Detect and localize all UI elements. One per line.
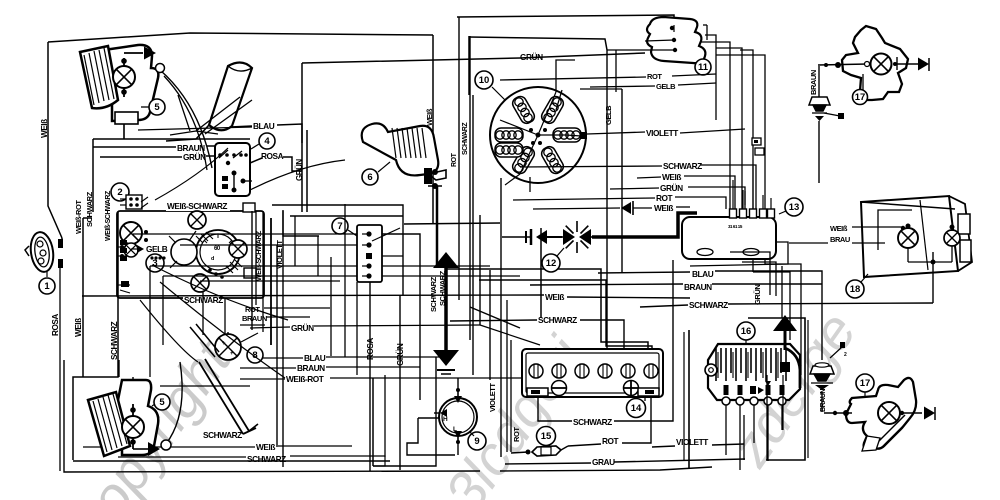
svg-text:d: d bbox=[211, 256, 214, 262]
wire left border bbox=[48, 42, 62, 238]
label VIOLETT vert x492 bbox=[488, 383, 497, 412]
cable sweep d bbox=[250, 160, 345, 190]
rear cluster bracket bbox=[958, 214, 971, 262]
label VIOLETT bottom bbox=[676, 437, 708, 447]
svg-text:BRAU: BRAU bbox=[830, 235, 850, 244]
battery 14 bbox=[522, 349, 663, 397]
label ROT right bbox=[245, 305, 260, 314]
wire vertical x302 bbox=[301, 63, 303, 212]
svg-text:15: 15 bbox=[541, 431, 552, 442]
wire braun stub bbox=[240, 317, 310, 325]
svg-text:GELB: GELB bbox=[146, 244, 168, 254]
turn signal 17 leg bbox=[862, 415, 909, 451]
label WEISS vert b bbox=[74, 318, 83, 337]
wire blau right bbox=[598, 271, 822, 285]
label BRAUN vert 17 bbox=[809, 70, 818, 95]
wire 17 top left bbox=[818, 62, 870, 69]
svg-text:SCHWARZ: SCHWARZ bbox=[85, 191, 94, 227]
wire corner a bbox=[730, 252, 770, 295]
label SCHWARZ pedal bbox=[203, 430, 242, 440]
wire vertical x433 (stop switch feed) bbox=[432, 35, 434, 223]
rear brake switch 8 bbox=[215, 332, 258, 360]
handlebar grip bbox=[166, 62, 252, 141]
label GRUEN vert mid bbox=[395, 343, 405, 366]
wire rot tail bbox=[500, 74, 716, 80]
svg-text:GRÜN: GRÜN bbox=[660, 183, 683, 193]
label GRUEN mid bbox=[291, 323, 314, 333]
wire weiss rear bbox=[852, 226, 905, 230]
label SCHWARZ right2 bbox=[689, 300, 728, 310]
label ROT tail bbox=[647, 72, 662, 81]
ground arrow 17 top bbox=[918, 58, 929, 72]
ground arrow plug left bbox=[502, 229, 547, 245]
decor bbox=[53, 300, 868, 500]
wire x436 down bbox=[373, 357, 436, 466]
label BRAUN bbox=[177, 143, 205, 153]
wire x277 bbox=[276, 245, 278, 447]
wire x730 bbox=[700, 42, 730, 252]
svg-text:WEIß: WEIß bbox=[654, 203, 673, 213]
wire weiss label bbox=[544, 291, 567, 302]
svg-text:SCHWARZ: SCHWARZ bbox=[538, 315, 577, 325]
label circled 8 bbox=[247, 347, 263, 363]
svg-text:SCHWARZ: SCHWARZ bbox=[689, 300, 728, 310]
wire box top bbox=[93, 139, 250, 212]
svg-text:9: 9 bbox=[474, 436, 479, 447]
ground arrow 17 bottom bbox=[924, 407, 935, 421]
pilot lamp top bbox=[188, 211, 206, 229]
label ROSA bbox=[261, 151, 284, 161]
label circled 3 bbox=[146, 254, 164, 272]
svg-text:WEIß-SCHWARZ: WEIß-SCHWARZ bbox=[256, 230, 263, 281]
label SCHWARZ vert a bbox=[85, 191, 94, 227]
switch unit 4 box bbox=[215, 143, 250, 196]
steering column lines bbox=[170, 95, 252, 135]
wire x118 SCHWARZ bbox=[73, 212, 118, 460]
wire schwarz battery bbox=[538, 260, 673, 421]
svg-text:ROT: ROT bbox=[656, 193, 673, 203]
bottom lamp terminals bbox=[130, 404, 136, 449]
wire x307 bbox=[306, 130, 308, 212]
label VIOLETT right bbox=[646, 128, 678, 138]
horn symbol top right bbox=[809, 97, 844, 121]
battery terminal left bbox=[527, 388, 548, 396]
svg-text:WEIß-ROT: WEIß-ROT bbox=[74, 200, 83, 234]
wire x256 down bbox=[255, 211, 257, 305]
svg-text:GRÜN: GRÜN bbox=[183, 152, 206, 162]
switch 2 connector bbox=[120, 195, 142, 209]
label BRAUN right2 bbox=[684, 282, 712, 292]
svg-text:5: 5 bbox=[154, 102, 160, 113]
svg-text:GRÜN: GRÜN bbox=[520, 52, 543, 62]
svg-text:16: 16 bbox=[741, 326, 752, 337]
wire x385 bbox=[384, 375, 386, 457]
wire ROSA bbox=[250, 157, 302, 171]
wire y253 bbox=[382, 255, 403, 257]
wire conn7 left2 bbox=[163, 275, 520, 277]
label BRAUN rear bbox=[830, 235, 850, 244]
lamp rear 2 bbox=[944, 225, 960, 263]
svg-text:SCHWARZ: SCHWARZ bbox=[663, 161, 702, 171]
label circled 16 bbox=[737, 322, 755, 344]
label SCHWARZ vert b bbox=[110, 321, 119, 360]
label WEISS-ROT vert bbox=[74, 200, 83, 234]
wire GRUEN y328 bbox=[250, 325, 480, 328]
wire BRAUN to switch bbox=[93, 146, 215, 147]
connector box lamp5 bbox=[115, 112, 252, 130]
wire x225 down bbox=[224, 298, 226, 334]
label circled 13 bbox=[779, 198, 803, 216]
svg-text:GRÜN: GRÜN bbox=[291, 323, 314, 333]
label GRAU bbox=[592, 457, 615, 467]
cable curve handlebar left bbox=[156, 64, 213, 171]
wire x501 bbox=[500, 178, 502, 457]
svg-text:WEIß-SCHWARZ: WEIß-SCHWARZ bbox=[105, 190, 112, 241]
wire braun 17 bbox=[818, 66, 820, 97]
label GRUEN bbox=[183, 152, 206, 162]
lamp bulb front-left bbox=[113, 66, 135, 88]
wire y62 horizontal (GRUEN run) bbox=[302, 53, 645, 63]
lamp bulb 17 bottom bbox=[878, 402, 900, 424]
wire x400 down GRUEN bbox=[399, 295, 401, 470]
svg-text:WEIß-ROT: WEIß-ROT bbox=[286, 374, 324, 384]
lamp bottom bbox=[191, 274, 209, 292]
svg-text:GELB: GELB bbox=[656, 82, 676, 91]
wire BLAU bbox=[230, 124, 302, 143]
small rect right b bbox=[244, 268, 256, 278]
wire 17 bottom left bbox=[824, 410, 852, 416]
label GRUEN stack bbox=[660, 183, 683, 193]
wire y295 long bbox=[82, 295, 690, 298]
wire braun mid bbox=[240, 367, 420, 368]
label GELB bbox=[131, 244, 168, 254]
label SCHWARZ bottom bbox=[183, 294, 223, 305]
wire x606b bbox=[479, 280, 652, 350]
horn 1 terminals bbox=[58, 239, 63, 268]
switch 4 contacts bbox=[218, 150, 252, 193]
svg-text:SCHWARZ: SCHWARZ bbox=[462, 122, 469, 155]
battery plus cap bbox=[624, 381, 639, 396]
label circled 10 bbox=[475, 71, 505, 100]
wire x603 bbox=[446, 269, 648, 350]
wire y35 right segment bbox=[469, 37, 649, 50]
svg-text:5: 5 bbox=[159, 397, 165, 408]
wire y214 bbox=[283, 210, 403, 276]
wire x511 bbox=[510, 340, 512, 452]
label ROT stack bbox=[656, 193, 673, 203]
battery minus cap bbox=[552, 381, 567, 396]
wire x283 bbox=[282, 211, 284, 467]
flywheel magneto 10 bbox=[490, 87, 586, 192]
svg-text:VIOLETT: VIOLETT bbox=[646, 128, 678, 138]
wire x607 bbox=[606, 50, 608, 350]
regulator wires down bbox=[726, 405, 782, 470]
wire gelb tail bbox=[590, 83, 716, 87]
cable sweep e bbox=[155, 148, 228, 200]
svg-text:ROT: ROT bbox=[512, 427, 521, 442]
CDI pins bbox=[728, 202, 775, 229]
svg-text:SCHWARZ: SCHWARZ bbox=[110, 321, 119, 360]
outer bottom line bbox=[64, 360, 480, 472]
HT lead thick bbox=[541, 213, 697, 237]
svg-text:BRAUN: BRAUN bbox=[820, 389, 827, 412]
label circled 17 top bbox=[853, 90, 868, 105]
svg-text:7: 7 bbox=[337, 221, 342, 232]
wire grau bbox=[505, 459, 745, 464]
wire conn7 right1 bbox=[382, 234, 420, 400]
label circled 17 bottom bbox=[856, 374, 874, 398]
wire x490 bbox=[489, 270, 491, 380]
label BLAU bbox=[253, 121, 275, 131]
svg-text:GRÜN: GRÜN bbox=[395, 343, 405, 366]
svg-text:14: 14 bbox=[631, 403, 642, 414]
label SCHWARZ vert x465 bbox=[462, 122, 469, 155]
svg-text:WEIß: WEIß bbox=[74, 318, 83, 337]
battery terminal right bbox=[638, 388, 659, 396]
svg-text:ROT: ROT bbox=[647, 72, 662, 81]
label ROSA vert bbox=[51, 314, 60, 336]
connector 7 pins bbox=[362, 231, 372, 278]
pilot lamp left small bbox=[124, 243, 138, 257]
label circled 12 bbox=[542, 248, 564, 272]
lamp bulb bottom-left bbox=[122, 416, 144, 438]
label circled 18 bbox=[846, 274, 868, 298]
stop switch 6 lever bbox=[362, 123, 439, 175]
wire GRUEN to switch bbox=[100, 156, 215, 157]
horn 9 terminals bbox=[434, 388, 462, 444]
label GRUEN top bbox=[520, 52, 543, 62]
wire x790 bbox=[753, 272, 790, 340]
wire weissrot mid bbox=[240, 378, 540, 379]
wire y251 bbox=[133, 234, 357, 245]
label circled 7 bbox=[332, 218, 357, 236]
wire corner c bbox=[765, 264, 801, 375]
wire horn1 down bbox=[59, 267, 61, 471]
label GELB vert tail bbox=[604, 105, 613, 125]
cable sweep b bbox=[160, 282, 285, 378]
turn signal 17 bottom body bbox=[846, 378, 916, 449]
lamp right bbox=[229, 240, 247, 258]
main lamp left bbox=[120, 222, 142, 244]
label WEISS bottom bbox=[256, 442, 275, 452]
tail light 11 bbox=[647, 17, 705, 63]
ground symbol center bbox=[433, 252, 459, 374]
label circled 1 bbox=[39, 272, 55, 294]
label circled 9 bbox=[468, 432, 486, 450]
wire y281 bbox=[200, 280, 340, 282]
wire schwarz stack bbox=[520, 165, 756, 209]
wire corner b bbox=[742, 262, 776, 296]
label ROT vert x516 bbox=[512, 427, 521, 442]
label circled 11 bbox=[695, 59, 711, 75]
label BRAUN right bbox=[242, 314, 267, 323]
flywheel radial lines bbox=[500, 92, 566, 174]
wire lamp5 bottom bbox=[121, 88, 127, 139]
label circled 5 bottom bbox=[152, 394, 170, 410]
CDI pin wires bbox=[733, 166, 771, 202]
svg-text:18: 18 bbox=[850, 284, 861, 295]
CDI upper pin boxes bbox=[752, 138, 764, 155]
wire y16 top (tail light feed) bbox=[457, 15, 674, 25]
svg-text:4: 4 bbox=[264, 136, 270, 147]
turn signal 17 top body bbox=[842, 26, 908, 100]
wire x437 thick bbox=[436, 186, 439, 268]
wire y223 bbox=[404, 223, 500, 224]
connector arrow mid bbox=[621, 201, 652, 215]
svg-text:BLAU: BLAU bbox=[692, 269, 714, 279]
wire flywheel out right bbox=[566, 132, 645, 139]
wire x163 bbox=[162, 276, 164, 345]
label ROSA vert mid bbox=[366, 338, 375, 360]
horn 1 bbox=[25, 231, 56, 274]
svg-text:1: 1 bbox=[44, 281, 50, 292]
tail light pins bbox=[645, 25, 677, 52]
svg-text:BRAUN: BRAUN bbox=[297, 363, 325, 373]
svg-text:WEIß: WEIß bbox=[425, 108, 434, 126]
small rect right a bbox=[243, 203, 255, 212]
svg-text:WEIß: WEIß bbox=[256, 442, 275, 452]
svg-text:6: 6 bbox=[367, 172, 372, 183]
label SCHWARZ bottom2 bbox=[247, 454, 286, 464]
label WEISS-SCHWARZ top bbox=[166, 200, 230, 211]
label circled 4 bbox=[251, 133, 275, 149]
wire x541 plug bbox=[540, 228, 542, 318]
lamp rear 1 bbox=[898, 224, 918, 263]
wire schwarz right bbox=[640, 303, 933, 307]
wire x357 down bbox=[356, 282, 358, 375]
cluster pin details bbox=[120, 197, 224, 287]
wire flywheel exit bottom bbox=[505, 174, 520, 185]
wire x507 bbox=[506, 300, 508, 452]
label WEISS vert bbox=[40, 119, 49, 138]
svg-text:BRAUN: BRAUN bbox=[809, 70, 818, 95]
speedometer dial bbox=[196, 230, 240, 274]
label circled 14 bbox=[627, 397, 646, 418]
svg-text:WEIß: WEIß bbox=[830, 224, 848, 233]
label SCHWARZ mid-left bbox=[538, 315, 577, 325]
svg-text:WEIß: WEIß bbox=[40, 119, 49, 138]
label GRUEN vert right bbox=[753, 285, 762, 305]
wire schwarz bottom bbox=[118, 456, 385, 466]
svg-text:17: 17 bbox=[860, 378, 871, 389]
label WEISS stack2 bbox=[654, 203, 673, 213]
svg-text:13: 13 bbox=[789, 202, 800, 213]
svg-text:GRAU: GRAU bbox=[592, 457, 615, 467]
wire corner c2 bbox=[781, 266, 783, 318]
svg-text:SCHWARZ: SCHWARZ bbox=[203, 430, 242, 440]
svg-text:31 61 15: 31 61 15 bbox=[728, 224, 743, 229]
box bottom lamp bbox=[73, 460, 390, 462]
label WEISS stack bbox=[662, 172, 681, 182]
regulator terminals bbox=[722, 381, 786, 405]
label SCHWARZ vert gnd a bbox=[429, 276, 438, 312]
svg-text:ROSA: ROSA bbox=[261, 151, 284, 161]
fuse 15 bbox=[511, 446, 568, 456]
ground arrow regulator bbox=[773, 315, 800, 388]
wire x83 WEISS bbox=[83, 218, 92, 377]
voltage regulator 16 bbox=[705, 344, 800, 400]
wire corner e bbox=[690, 242, 788, 266]
svg-text:VIOLETT: VIOLETT bbox=[488, 383, 497, 412]
wire diag cross bbox=[470, 307, 540, 345]
label circled 15 bbox=[537, 427, 556, 446]
label circled 2 bbox=[111, 183, 129, 201]
wire x742 bbox=[716, 48, 742, 258]
wire x473 bbox=[472, 95, 474, 375]
wire 17 bottom right bbox=[900, 411, 922, 415]
brake pedal bbox=[190, 324, 258, 434]
label GELB tail bbox=[656, 82, 676, 91]
wire rot stub bbox=[264, 307, 330, 309]
svg-text:WEIß: WEIß bbox=[662, 172, 681, 182]
wire violett bottom bbox=[652, 415, 744, 460]
horn 9 wires bbox=[407, 378, 458, 455]
wire x622 bbox=[580, 89, 622, 272]
wire x470 bbox=[469, 36, 471, 340]
label ROT vert x455 bbox=[451, 152, 458, 167]
bottom lamp 5 body bbox=[114, 380, 159, 455]
rear-left lamp box bbox=[119, 360, 133, 410]
wire y205 bbox=[272, 205, 403, 295]
svg-text:ROT: ROT bbox=[602, 436, 619, 446]
label BLAU mid bbox=[304, 353, 326, 363]
rear cluster inner bbox=[878, 200, 928, 270]
connector 7 diagonal bbox=[372, 228, 400, 241]
svg-text:GRÜN: GRÜN bbox=[753, 285, 762, 305]
front turn signal lamp 5 body bbox=[102, 45, 159, 121]
svg-text:GELB: GELB bbox=[604, 105, 613, 125]
wire x252 down bbox=[252, 211, 271, 345]
wire weiss stack bbox=[637, 176, 735, 209]
wire horn17 down bbox=[818, 121, 820, 183]
headset cluster box bbox=[117, 211, 264, 298]
wire weiss bottom bbox=[83, 446, 352, 447]
svg-text:BLAU: BLAU bbox=[304, 353, 326, 363]
svg-text:SCHWARZ: SCHWARZ bbox=[429, 276, 438, 312]
wire vertical x469 bbox=[468, 36, 470, 95]
wire x203 down bbox=[160, 292, 250, 386]
svg-text:2: 2 bbox=[117, 187, 122, 198]
label BRAUN mid bbox=[0, 0, 1, 1]
label SCHWARZ stack bbox=[663, 161, 702, 171]
wire x459 bbox=[458, 17, 460, 300]
svg-text:ROT: ROT bbox=[451, 152, 458, 167]
rear cluster 18 outline bbox=[861, 196, 972, 277]
cluster hatch small bbox=[226, 259, 242, 273]
label WEISS-SCHWARZ vert c bbox=[256, 230, 263, 281]
ground arrow bottom lamp bbox=[133, 442, 160, 456]
label WEISS rear bbox=[830, 224, 848, 233]
wire violett bbox=[680, 129, 745, 133]
label WEISS-SCHWARZ vert bbox=[105, 190, 112, 241]
connector block 7 bbox=[357, 225, 382, 282]
horn symbol right bbox=[810, 342, 847, 390]
wire x765 bbox=[716, 55, 765, 264]
wire x373 bbox=[372, 378, 374, 466]
svg-text:11: 11 bbox=[698, 62, 709, 73]
ground arrow at lamp 5 bbox=[144, 47, 156, 60]
wire x480 bbox=[479, 215, 481, 325]
label WEISS-ROT mid bbox=[286, 374, 324, 384]
wire x330 bbox=[331, 204, 345, 357]
wire conn7 left1 bbox=[150, 265, 490, 267]
svg-text:WEIß: WEIß bbox=[545, 292, 564, 302]
svg-text:BRAUN: BRAUN bbox=[684, 282, 712, 292]
wire x822 horn bbox=[821, 285, 823, 412]
wire x616 bbox=[615, 50, 617, 92]
wire weiss2 stack bbox=[533, 207, 690, 209]
svg-text:WEIß-SCHWARZ: WEIß-SCHWARZ bbox=[167, 201, 227, 211]
